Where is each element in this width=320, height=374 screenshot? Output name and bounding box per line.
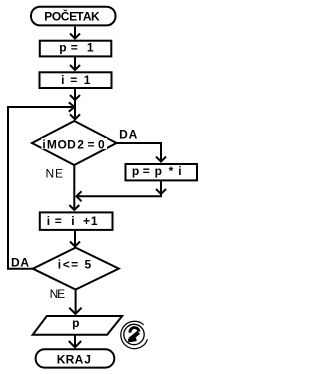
arrowhead down at merge corner — [156, 189, 166, 194]
arrowhead into p=1 — [70, 34, 80, 39]
arrowhead into KRAJ — [69, 341, 81, 347]
decision diamond2 i <= 5 — [33, 248, 119, 290]
label KRAJ — [57, 353, 91, 367]
svg-text:p: p — [132, 164, 139, 178]
process i = 1 — [40, 72, 112, 88]
svg-text:E: E — [55, 167, 63, 181]
svg-text:A: A — [129, 128, 138, 142]
svg-text:i: i — [178, 164, 181, 178]
svg-text:p: p — [155, 164, 162, 178]
svg-text:1: 1 — [84, 73, 91, 87]
svg-text:i: i — [71, 214, 74, 228]
svg-text:=: = — [87, 137, 94, 151]
label NE diamond2 — [50, 287, 66, 301]
svg-text:N: N — [45, 167, 54, 181]
process p = 1 — [40, 41, 112, 57]
terminator KRAJ — [36, 349, 115, 367]
svg-text:2: 2 — [77, 137, 84, 151]
arrowhead into diamond2 — [70, 242, 80, 247]
label p = 1 — [59, 41, 94, 55]
svg-text:=: = — [55, 214, 62, 228]
svg-text:=: = — [71, 41, 78, 55]
halo under diamond1 text — [42, 138, 108, 149]
decision diamond1 i MOD 2 = 0 — [32, 121, 117, 165]
wire p=p*i down to merge line — [77, 182, 162, 197]
svg-text:K: K — [91, 9, 100, 23]
wire p=1 to i=1 — [74, 57, 76, 70]
wire i=1 to diamond1 — [74, 89, 76, 120]
svg-text:M: M — [47, 137, 57, 151]
label DA left — [11, 255, 29, 269]
svg-text:=: = — [71, 258, 78, 272]
label DA right — [119, 128, 137, 142]
wire diamond1 NE down to i=i+1 — [73, 165, 75, 210]
loop-back wire from i<=5 DA up left side — [8, 107, 73, 269]
svg-text:+: + — [83, 214, 90, 228]
wire start to p=1 — [74, 27, 76, 39]
svg-text:R: R — [66, 353, 75, 367]
svg-text:A: A — [75, 353, 84, 367]
stamp icon bolt — [130, 328, 139, 333]
svg-text:p: p — [72, 316, 79, 330]
io parallelogram p — [33, 316, 123, 335]
label p = p * i — [132, 164, 182, 178]
arrowhead into junction (right) — [69, 102, 75, 111]
svg-text:J: J — [84, 353, 91, 367]
arrowhead into output p — [69, 308, 81, 314]
arrowhead into i=i+1 — [69, 205, 79, 210]
wire i=i+1 to diamond2 — [74, 231, 76, 247]
stamp icon outer arc — [121, 321, 148, 348]
svg-text:*: * — [169, 164, 174, 178]
wire diamond2 NE down to output p — [75, 290, 77, 315]
label i = 1 — [61, 73, 91, 87]
label NE diamond1 — [45, 167, 63, 181]
svg-text:=: = — [70, 73, 77, 87]
svg-text:5: 5 — [85, 258, 92, 272]
svg-text:i: i — [61, 73, 64, 87]
svg-text:i: i — [47, 214, 50, 228]
label POCETAK — [44, 8, 100, 23]
wire output p to KRAJ — [74, 335, 76, 348]
svg-text:D: D — [119, 128, 128, 142]
svg-text:i: i — [42, 137, 45, 151]
label i <= 5 — [58, 258, 92, 272]
arrowhead at loop junction — [70, 95, 80, 100]
svg-text:0: 0 — [98, 137, 105, 151]
DA wire from diamond1 to p=p*i — [117, 143, 162, 162]
halo under diamond2 text — [56, 260, 92, 270]
svg-text:i: i — [58, 258, 61, 272]
svg-text:A: A — [20, 255, 29, 269]
stamp icon inner circle — [124, 324, 144, 344]
svg-text:D: D — [67, 137, 76, 151]
svg-text:D: D — [11, 255, 20, 269]
process i = i +1 — [40, 212, 113, 230]
arrowhead into i=1 — [70, 65, 80, 70]
label i = i +1 — [47, 214, 98, 228]
terminator POCETAK — [31, 7, 116, 26]
arrowhead into p=p*i — [156, 157, 166, 162]
svg-text:p: p — [59, 41, 66, 55]
svg-text:=: = — [143, 164, 150, 178]
svg-text:O: O — [58, 137, 67, 151]
svg-text:E: E — [57, 287, 65, 301]
svg-text:1: 1 — [91, 214, 98, 228]
process p = p * i — [126, 164, 198, 180]
svg-text:K: K — [57, 353, 66, 367]
svg-text:1: 1 — [87, 41, 94, 55]
label iMOD2 = 0 — [42, 137, 105, 151]
arrowhead into diamond1 — [70, 114, 80, 119]
svg-text:<: < — [63, 258, 70, 272]
arrowhead left into main line — [77, 191, 82, 201]
